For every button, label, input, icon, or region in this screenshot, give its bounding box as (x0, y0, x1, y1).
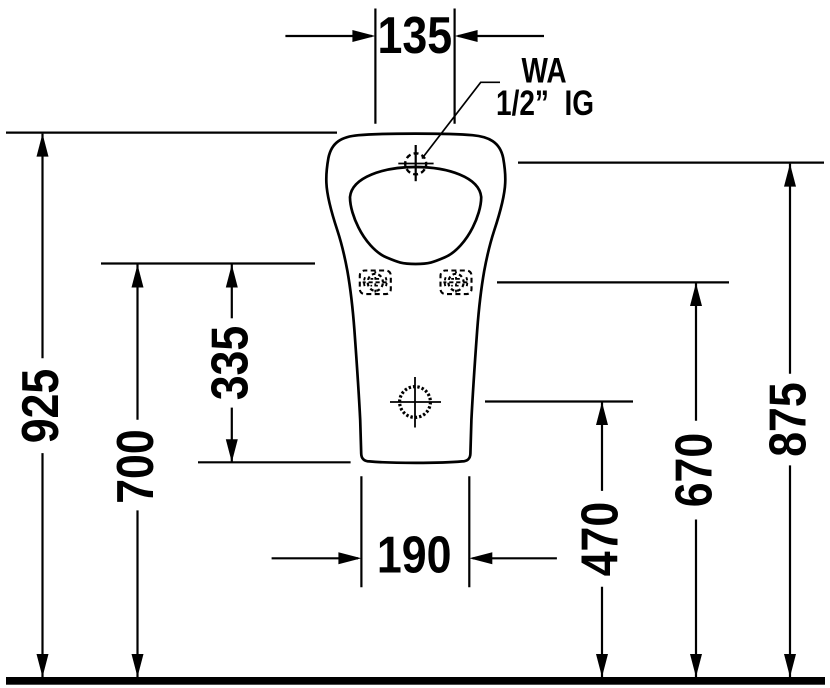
dimension 670 arrow top (690, 283, 702, 306)
leader line WA (422, 82, 500, 158)
reference line top-left (925 level) (6, 132, 337, 134)
dimension 875 arrow top (784, 164, 796, 187)
dimension 925 line lower (41, 453, 43, 677)
dimension 700 line lower (136, 510, 138, 677)
svg-text:1/2” IG: 1/2” IG (496, 83, 594, 123)
dimension 190 line right segment (473, 557, 557, 559)
dimension 190 extension line right (468, 476, 470, 587)
dimension 925 arrow bottom (37, 654, 49, 677)
mounting hole left (360, 271, 391, 295)
svg-text:700: 700 (107, 429, 165, 504)
svg-text:925: 925 (12, 369, 70, 444)
dimension 875 line upper (789, 164, 791, 374)
dimension 470 arrow bottom (596, 654, 608, 677)
dimension 470 line lower (601, 587, 603, 677)
urinal inner bowl rim (350, 167, 481, 264)
dimension 135 arrow left (352, 30, 375, 42)
dimension 925 line upper (41, 134, 43, 359)
reference line right mid (670 level) (497, 281, 729, 283)
dimension 335 arrow top (226, 265, 238, 288)
WA fitting crosshair vertical (415, 145, 417, 181)
dimension 700 arrow bottom (132, 654, 144, 677)
svg-text:190: 190 (377, 526, 452, 584)
dimension 700 arrow top (132, 265, 144, 288)
drain hole dotted circle (400, 387, 431, 418)
dimension 190 line left segment (272, 557, 358, 559)
svg-text:670: 670 (665, 433, 723, 508)
dimension 670 line lower (695, 520, 697, 678)
reference line top-right (875 level) (518, 162, 824, 164)
reference line left mid (700/335 level) (101, 262, 315, 264)
reference line right drain (470 level) (485, 400, 633, 402)
dimension 135 line left segment (285, 35, 372, 37)
svg-text:335: 335 (201, 326, 259, 401)
dimension 190 arrow left (338, 552, 361, 564)
dimension 875 arrow bottom (784, 654, 796, 677)
dimension 470 line upper (601, 402, 603, 491)
WA fitting dashed circle (405, 153, 426, 174)
dimension 190 extension line left (360, 476, 362, 587)
svg-text:470: 470 (571, 502, 629, 577)
dimension 700 line upper (136, 265, 138, 420)
dimension 470 arrow top (596, 402, 608, 425)
svg-text:135: 135 (377, 7, 452, 65)
dimension 335 arrow bottom (226, 439, 238, 462)
reference line left lower (335 bottom) (198, 461, 351, 463)
dimension 670 arrow bottom (690, 654, 702, 677)
dimension 670 line upper (695, 283, 697, 421)
urinal outer body (326, 134, 505, 463)
dimension 190 arrow right (469, 552, 492, 564)
dimension 925 arrow top (37, 134, 49, 157)
dimension 335 line lower (231, 408, 233, 463)
drain crosshair vertical (414, 377, 416, 428)
dimension 135 extension line left (374, 9, 376, 124)
dimension 135 arrow right (455, 30, 478, 42)
dimension 875 line lower (789, 465, 791, 677)
dimension 135 line right segment (458, 35, 544, 37)
dimension 135 extension line right (454, 9, 456, 124)
dimension 335 line upper (231, 265, 233, 319)
ground line (6, 677, 825, 685)
WA fitting crosshair horizontal (398, 163, 433, 165)
mounting hole right (441, 271, 472, 295)
drain crosshair horizontal (390, 401, 441, 403)
svg-text:875: 875 (759, 382, 817, 457)
